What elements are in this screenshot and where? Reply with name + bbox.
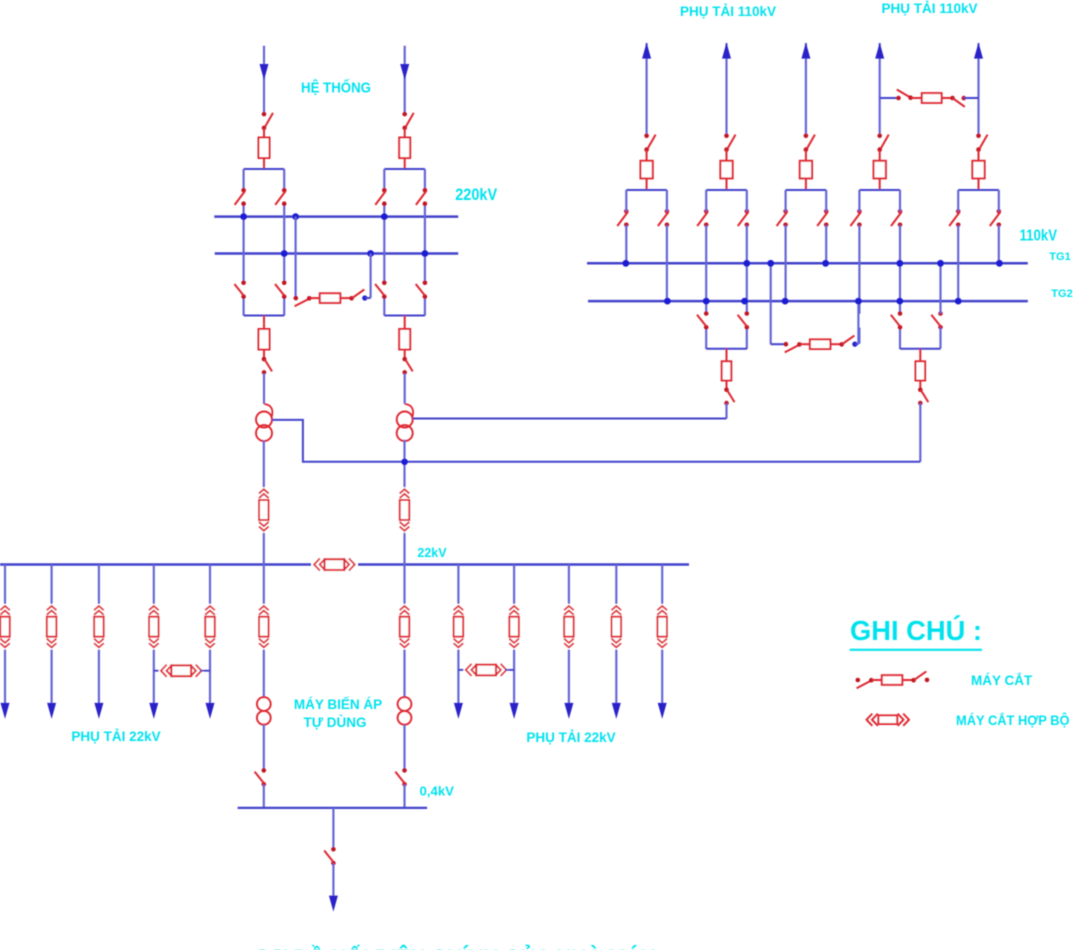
svg-text:GHI CHÚ :: GHI CHÚ : — [850, 615, 982, 646]
svg-text:TG1: TG1 — [1049, 251, 1070, 263]
svg-text:MÁY BIẾN ÁP: MÁY BIẾN ÁP — [294, 697, 382, 712]
svg-text:MÁY CẮT HỢP BỘ: MÁY CẮT HỢP BỘ — [956, 713, 1070, 728]
svg-text:MÁY CẮT: MÁY CẮT — [971, 673, 1033, 688]
svg-text:TỰ DÙNG: TỰ DÙNG — [304, 715, 367, 730]
svg-text:PHỤ TẢI 110kV: PHỤ TẢI 110kV — [680, 4, 776, 19]
svg-text:PHỤ TẢI 110kV: PHỤ TẢI 110kV — [881, 1, 977, 16]
svg-text:PHỤ TẢI 22kV: PHỤ TẢI 22kV — [71, 729, 160, 744]
svg-text:TG2: TG2 — [1051, 288, 1072, 300]
svg-text:SƠ ĐỒ NỐI ĐIỆN CHÍNH CỦA NHÀ M: SƠ ĐỒ NỐI ĐIỆN CHÍNH CỦA NHÀ MÁY — [255, 943, 655, 950]
svg-text:PHỤ TẢI 22kV: PHỤ TẢI 22kV — [526, 730, 615, 745]
svg-text:220kV: 220kV — [455, 185, 498, 204]
svg-text:HỆ THỐNG: HỆ THỐNG — [301, 79, 371, 97]
svg-text:0,4kV: 0,4kV — [420, 784, 455, 799]
svg-text:110kV: 110kV — [1020, 228, 1058, 245]
svg-text:22kV: 22kV — [417, 546, 447, 560]
